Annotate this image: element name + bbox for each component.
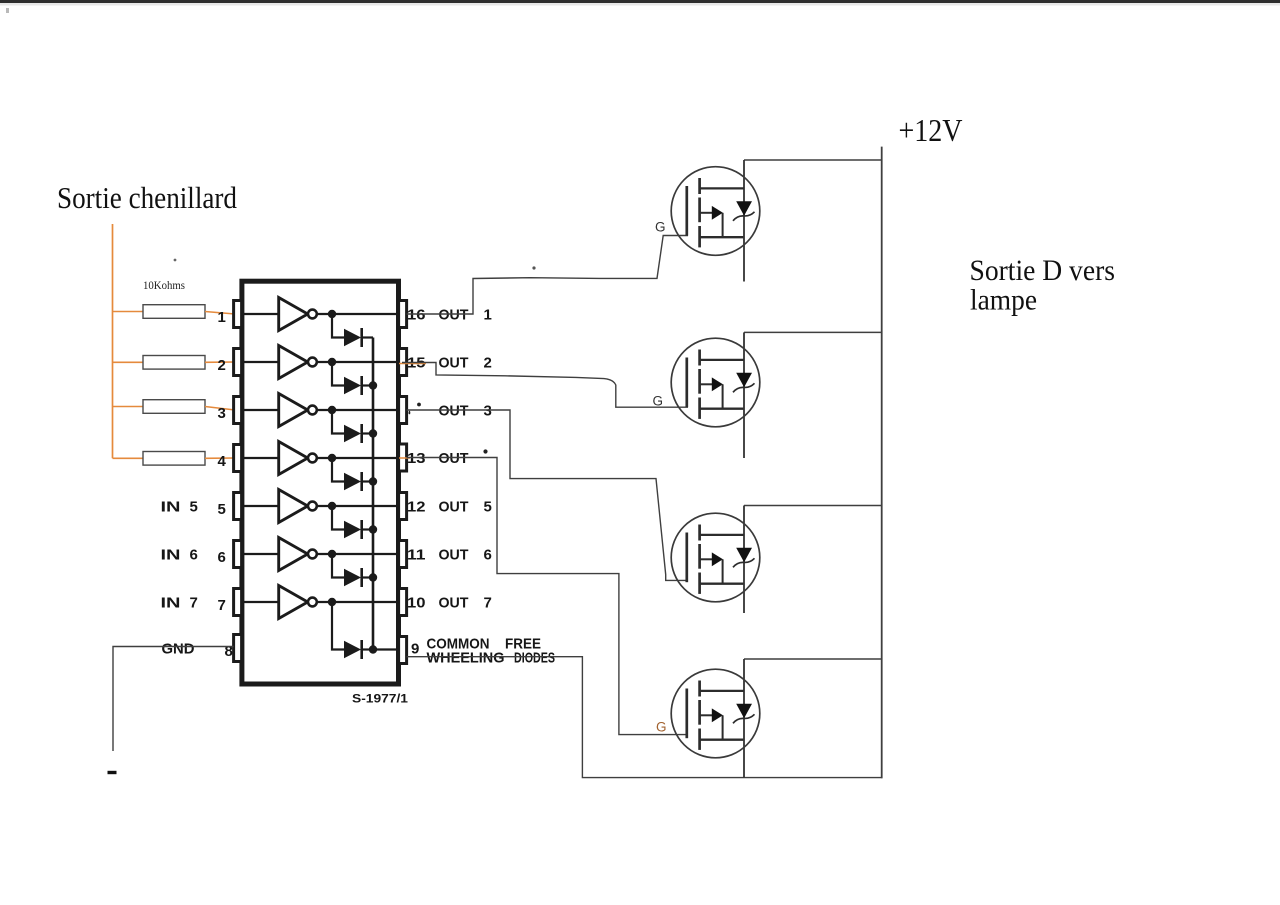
svg-text:OUT: OUT: [439, 595, 469, 612]
wire orange bus to R1: [113, 311, 144, 313]
wire diode D1 to bus: [362, 336, 373, 338]
wire row 2 to diode D2: [332, 362, 344, 386]
svg-text:IN: IN: [161, 547, 181, 564]
orange tick pin 15: [399, 363, 426, 365]
pin 14 (right): [399, 397, 407, 424]
svg-text:OUT: OUT: [439, 450, 469, 467]
wire row 3 to diode D3: [332, 410, 344, 434]
orange tick pin 13: [399, 457, 410, 459]
wire inverter 2 to pin 15: [317, 361, 399, 363]
wire R4 to pin 4: [205, 457, 235, 459]
inverter A4: [279, 442, 308, 475]
svg-text:6: 6: [484, 547, 492, 564]
svg-text:12: 12: [407, 499, 426, 516]
pin 9 (right): [399, 637, 407, 664]
svg-text:OUT: OUT: [439, 355, 469, 372]
pin 2 (left): [234, 349, 242, 376]
svg-text:S-1977/1: S-1977/1: [352, 694, 409, 706]
resistor R4 10K: [143, 452, 205, 466]
inverter A5: [279, 490, 308, 523]
junction dot diode bus: [369, 645, 377, 653]
junction dot diode bus: [369, 525, 377, 533]
inverter A3: [279, 394, 308, 427]
wire R1 to pin 1: [205, 312, 235, 315]
pin 3 (left): [234, 397, 242, 424]
junction dot row 1: [328, 310, 336, 318]
wire pin 1 to inverter 1: [244, 313, 279, 315]
pin 4 (left): [234, 445, 242, 472]
wire OUT4 (pin13) to Q4 gate: [407, 458, 688, 735]
wire inverter 6 to pin 11: [317, 553, 399, 555]
wire diode D5 to bus: [362, 528, 373, 530]
svg-text:G: G: [656, 720, 667, 735]
svg-text:5: 5: [190, 499, 198, 516]
wire orange bus to R2: [113, 361, 144, 363]
svg-text:7: 7: [484, 595, 492, 612]
wire bus to pin 9: [373, 648, 399, 650]
svg-text:G: G: [655, 220, 666, 235]
wire pin 4 to inverter 4: [244, 457, 279, 459]
resistor R2 10K: [143, 356, 205, 370]
svg-text:GND: GND: [162, 641, 195, 658]
+12V rail: [881, 147, 883, 779]
svg-text:IN: IN: [161, 595, 181, 612]
pin 10 (right): [399, 589, 407, 616]
inverter A1: [279, 298, 308, 331]
pin 13 (right): [399, 444, 407, 471]
wire Q3 drain to +12V rail: [744, 505, 883, 507]
junction dot row 3: [328, 406, 336, 414]
inverter A4 bubble: [308, 454, 317, 463]
svg-text:6: 6: [190, 547, 198, 564]
inverter A2 bubble: [308, 358, 317, 367]
inverter A3 bubble: [308, 406, 317, 415]
diode common bus: [372, 338, 375, 650]
svg-text:OUT: OUT: [439, 403, 469, 420]
wire orange bus to R4: [113, 457, 144, 459]
wire OUT2 to Q2 gate: [402, 363, 688, 408]
pin 7 (left): [234, 589, 242, 616]
svg-text:6: 6: [217, 549, 225, 566]
wire inverter 1 to pin 16: [317, 313, 399, 315]
transistor Q1 MOSFET: [671, 167, 760, 256]
label Sortie D vers lampe: [970, 254, 1116, 317]
wire pin 3 to inverter 3: [244, 409, 279, 411]
svg-text:5: 5: [484, 499, 492, 516]
diode D6: [344, 569, 361, 586]
wire diode D6 to bus: [362, 576, 373, 578]
wire inverter 7 to pin 10: [317, 601, 399, 603]
pin 16 (right): [399, 301, 407, 328]
svg-text:IN: IN: [161, 499, 181, 516]
svg-text:OUT: OUT: [439, 547, 469, 564]
pin 11 (right): [399, 541, 407, 568]
diode D1: [344, 329, 361, 346]
minus terminal: [108, 771, 117, 774]
svg-text:3: 3: [484, 403, 492, 420]
svg-text:Sortie D vers: Sortie D vers: [970, 254, 1116, 287]
svg-text:G: G: [653, 394, 664, 409]
diode D2: [344, 377, 361, 394]
pin 8 (left): [234, 635, 242, 662]
svg-text:Sortie chenillard: Sortie chenillard: [57, 181, 237, 215]
junction dot row 7: [328, 598, 336, 606]
diode D7: [344, 641, 361, 658]
svg-text:2: 2: [217, 357, 225, 374]
svg-text:OUT: OUT: [439, 499, 469, 516]
diode D7 cathode bar: [360, 640, 363, 659]
corner speck: [6, 8, 9, 13]
svg-text:11: 11: [407, 547, 426, 564]
transistor Q2 MOSFET: [671, 338, 760, 427]
wire row 7 to diode D7: [332, 602, 344, 650]
IC U1 ULN2003 body: [242, 281, 399, 684]
wire Q3 drain-source vertical: [743, 506, 745, 614]
wire row 1 to diode D1: [332, 314, 344, 338]
wire Q4 drain-source vertical: [743, 659, 745, 778]
diode D2 cathode bar: [360, 376, 363, 395]
svg-text:10: 10: [407, 595, 426, 612]
wire inverter 3 to pin 14: [317, 409, 399, 411]
svg-text:7: 7: [217, 597, 225, 614]
wire row 4 to diode D4: [332, 458, 344, 482]
diode D1 cathode bar: [360, 328, 363, 347]
wire pin 6 to inverter 6: [244, 553, 279, 555]
pin 5 (left): [234, 493, 242, 520]
wire Q1 drain-source vertical: [743, 160, 745, 282]
inverter A5 bubble: [308, 502, 317, 511]
wire row 5 to diode D5: [332, 506, 344, 530]
pin 1 (left): [234, 301, 242, 328]
junction dot diode bus: [369, 477, 377, 485]
svg-text:5: 5: [217, 501, 225, 518]
wire diode D2 to bus: [362, 384, 373, 386]
svg-text:3: 3: [217, 405, 225, 422]
transistor Q3 MOSFET: [671, 513, 760, 602]
svg-text:1: 1: [484, 307, 492, 324]
inverter A6 bubble: [308, 550, 317, 559]
svg-text:WHEELING: WHEELING: [427, 650, 505, 667]
svg-text:OUT: OUT: [439, 307, 469, 324]
diode D4 cathode bar: [360, 472, 363, 491]
inverter A2: [279, 346, 308, 379]
wire GND: [113, 647, 234, 752]
pin 6 (left): [234, 541, 242, 568]
diode D3: [344, 425, 361, 442]
junction dot row 2: [328, 358, 336, 366]
svg-text:2: 2: [484, 355, 492, 372]
wire diode D7 to bus: [362, 648, 373, 650]
inverter A7 bubble: [308, 598, 317, 607]
svg-text:7: 7: [190, 595, 198, 612]
pin 15 (right): [399, 349, 407, 376]
diode D5 cathode bar: [360, 520, 363, 539]
wire R3 to pin 3: [205, 407, 235, 411]
transistor Q4 MOSFET: [671, 669, 760, 758]
wire pin 9 to +12V rail: [407, 657, 883, 778]
wire Q2 drain to +12V rail: [744, 331, 883, 333]
node chenillard bus (orange vertical): [112, 224, 114, 458]
svg-text:4: 4: [217, 453, 226, 470]
inverter A6: [279, 538, 308, 571]
wire diode D3 to bus: [362, 432, 373, 434]
svg-text:16: 16: [407, 307, 426, 324]
diode D3 cathode bar: [360, 424, 363, 443]
svg-text:+12V: +12V: [899, 113, 963, 148]
pin 12 (right): [399, 493, 407, 520]
wire inverter 5 to pin 12: [317, 505, 399, 507]
svg-text:1: 1: [217, 309, 225, 326]
wire inverter 4 to pin 13: [317, 457, 399, 459]
junction dot row 6: [328, 550, 336, 558]
junction dot row 5: [328, 502, 336, 510]
junction dot diode bus: [369, 381, 377, 389]
speck dot above OUT1: [532, 266, 535, 269]
wire Q2 drain-source vertical: [743, 332, 745, 458]
wire diode D4 to bus: [362, 480, 373, 482]
inverter A1 bubble: [308, 310, 317, 319]
wire pin 5 to inverter 5: [244, 505, 279, 507]
wire pin 2 to inverter 2: [244, 361, 279, 363]
svg-text:10Kohms: 10Kohms: [143, 278, 185, 292]
wire Q4 drain to +12V rail: [744, 658, 883, 660]
svg-text:lampe: lampe: [970, 284, 1037, 317]
speck dot left area: [174, 259, 177, 262]
inverter A7: [279, 586, 308, 619]
wire pin 7 to inverter 7: [244, 601, 279, 603]
diode D5: [344, 521, 361, 538]
diode D4: [344, 473, 361, 490]
top border line: [0, 0, 1280, 3]
junction dot diode bus: [369, 429, 377, 437]
wire OUT1 to Q1 gate: [407, 236, 688, 315]
resistor R3 10K: [143, 400, 205, 414]
svg-text:9: 9: [411, 641, 419, 658]
diode D6 cathode bar: [360, 568, 363, 587]
svg-text:8: 8: [225, 643, 233, 660]
speck dots near pin 14: [417, 403, 421, 407]
wire OUT3 to Q3 gate: [407, 410, 688, 580]
wire Q1 drain to +12V rail: [744, 159, 883, 161]
speck dot after OUT row4: [483, 449, 487, 453]
junction dot diode bus: [369, 573, 377, 581]
wire R2 to pin 2: [205, 361, 235, 363]
wire orange bus to R3: [113, 406, 144, 408]
junction dot row 4: [328, 454, 336, 462]
wire row 6 to diode D6: [332, 554, 344, 578]
svg-text:DIODES: DIODES: [514, 650, 555, 667]
resistor R1 10K: [143, 305, 205, 319]
